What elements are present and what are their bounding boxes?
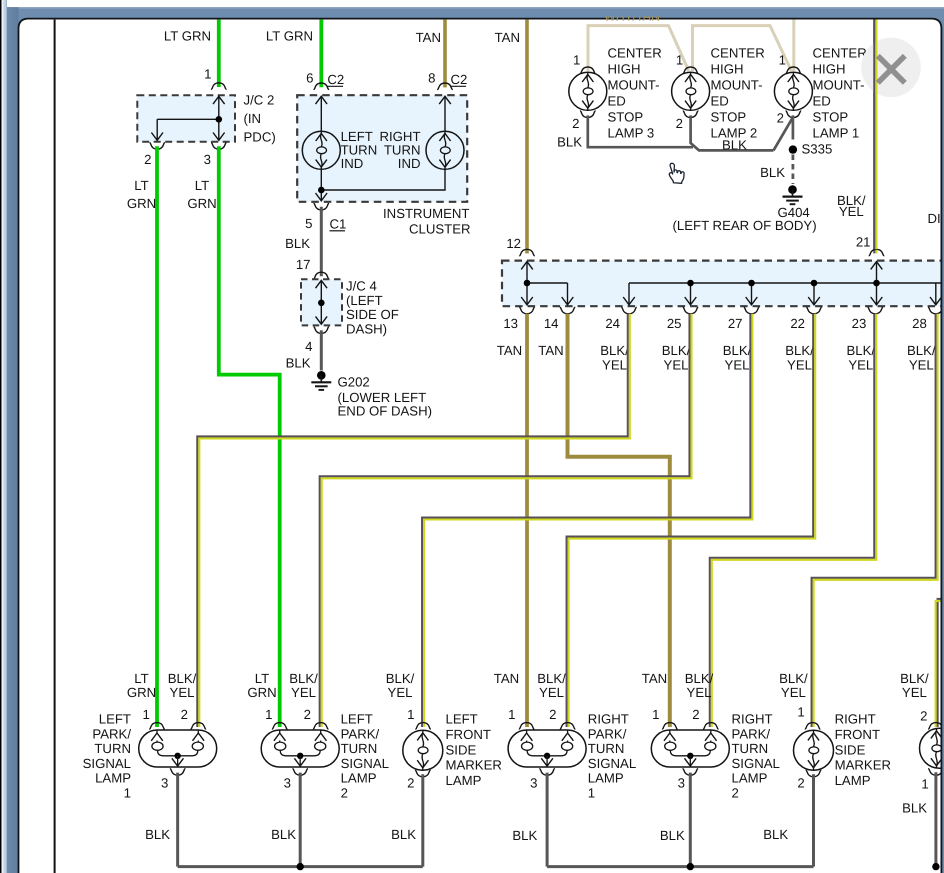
svg-text:FRONT: FRONT <box>446 727 491 742</box>
junction node right rear ground <box>932 863 939 870</box>
svg-text:LAMP: LAMP <box>341 771 377 786</box>
bus internal junction node pin12 <box>524 280 531 287</box>
svg-text:3: 3 <box>530 776 537 791</box>
bus internal junction nodes <box>687 280 694 287</box>
wire BLK/YEL bus pin 24 to left park/turn signal lamp 1 pin 2 <box>197 314 628 727</box>
svg-text:BLK: BLK <box>391 827 416 842</box>
svg-text:RIGHT: RIGHT <box>732 712 773 727</box>
svg-text:2: 2 <box>732 785 739 800</box>
svg-text:RIGHT: RIGHT <box>588 712 629 727</box>
svg-text:YEL: YEL <box>909 358 934 373</box>
bus internal wiring pin 12 to 13/14 <box>527 262 568 305</box>
svg-text:LEFT: LEFT <box>446 712 478 727</box>
svg-text:1: 1 <box>797 705 804 720</box>
svg-text:23: 23 <box>852 316 867 331</box>
svg-text:MARKER: MARKER <box>835 758 891 773</box>
pin connector arcs right side marker <box>805 723 821 729</box>
svg-text:BLK/: BLK/ <box>662 343 691 358</box>
svg-text:CENTER: CENTER <box>813 46 867 61</box>
svg-text:LEFT: LEFT <box>341 712 373 727</box>
svg-text:BLK: BLK <box>760 165 785 180</box>
svg-text:BLK/: BLK/ <box>907 343 936 358</box>
svg-text:SIDE: SIDE <box>446 742 477 757</box>
svg-text:LAMP: LAMP <box>835 773 871 788</box>
svg-text:G202: G202 <box>338 375 370 390</box>
svg-text:HIGH: HIGH <box>813 62 846 77</box>
pin 3 connector arc (J/C 2) <box>211 143 227 149</box>
lamp CENTER HIGH MOUNTED STOP LAMP 3 <box>569 72 607 110</box>
svg-text:1: 1 <box>652 707 659 722</box>
svg-text:2: 2 <box>920 709 927 724</box>
svg-text:5: 5 <box>305 216 312 231</box>
svg-text:TAN: TAN <box>416 30 441 45</box>
svg-text:GRN: GRN <box>127 685 156 700</box>
svg-text:BLK/: BLK/ <box>600 343 629 358</box>
svg-text:LT: LT <box>195 178 209 193</box>
svg-text:LEFT: LEFT <box>99 712 131 727</box>
svg-text:PDC): PDC) <box>244 130 276 145</box>
svg-text:SIGNAL: SIGNAL <box>83 756 131 771</box>
svg-text:3: 3 <box>204 152 211 167</box>
lamp CENTER HIGH MOUNTED STOP LAMP 2 <box>672 72 710 110</box>
svg-text:MOUNT-: MOUNT- <box>608 78 660 93</box>
svg-text:TAN: TAN <box>497 343 522 358</box>
svg-text:BLK: BLK <box>763 827 788 842</box>
svg-text:C1: C1 <box>330 217 347 232</box>
svg-text:CENTER: CENTER <box>608 46 662 61</box>
wire over close button <box>873 19 875 249</box>
clipped label WHT/TAN at top edge <box>604 9 660 23</box>
wire BLK ground bus right <box>547 865 813 868</box>
svg-text:YEL: YEL <box>539 685 564 700</box>
wire BLK J/C 4 pin 4 to ground G202 <box>320 330 323 370</box>
wire LT GRN from J/C 2 pin 3 to left park/turn signal lamp 2 pin 1 <box>219 146 280 727</box>
svg-text:SIDE OF: SIDE OF <box>346 307 399 322</box>
svg-text:25: 25 <box>667 316 682 331</box>
svg-text:TURN: TURN <box>732 741 769 756</box>
svg-text:RIGHT: RIGHT <box>835 712 876 727</box>
svg-text:FRONT: FRONT <box>835 727 880 742</box>
svg-text:HIGH: HIGH <box>608 62 641 77</box>
svg-text:YEL: YEL <box>388 685 413 700</box>
lamp RIGHT FRONT SIDE MARKER LAMP <box>794 730 834 770</box>
pin 1 connector arc (stop lamp 3) <box>580 67 596 73</box>
lamp LEFT FRONT SIDE MARKER LAMP <box>403 730 443 770</box>
pin connector arcs left side marker <box>415 723 431 729</box>
lamp RIGHT PARK/TURN SIGNAL LAMP 2 <box>651 730 729 767</box>
svg-text:1: 1 <box>407 707 414 722</box>
pin connector arcs right lamp 2 <box>662 723 678 729</box>
svg-text:BLK/: BLK/ <box>685 671 714 686</box>
svg-text:LAMP 3: LAMP 3 <box>608 126 655 141</box>
svg-text:TURN: TURN <box>94 741 131 756</box>
svg-text:BLK/: BLK/ <box>779 671 808 686</box>
bus bottom connector arcs <box>519 307 535 313</box>
svg-text:C2: C2 <box>327 72 344 87</box>
svg-text:LAMP 1: LAMP 1 <box>813 126 860 141</box>
pin 2 connector arc (stop lamp 1) <box>786 111 802 117</box>
svg-text:YEL: YEL <box>848 358 873 373</box>
svg-text:BLK/: BLK/ <box>386 671 415 686</box>
close button circle <box>861 38 921 98</box>
svg-text:2: 2 <box>692 707 699 722</box>
pin connector arcs left lamp 2 <box>272 723 288 729</box>
svg-text:GRN: GRN <box>187 196 216 211</box>
wire WHT/TAN chain stop lamp 2 to stop lamp 1 <box>693 26 792 71</box>
svg-text:BLK/: BLK/ <box>847 343 876 358</box>
junction node left ground bus <box>297 863 304 870</box>
svg-text:BLK/: BLK/ <box>785 343 814 358</box>
svg-text:MARKER: MARKER <box>446 758 502 773</box>
svg-text:17: 17 <box>296 257 311 272</box>
svg-text:TAN: TAN <box>538 343 563 358</box>
J/C 4 internal link <box>320 280 322 324</box>
wire TAN from top to bus pin 12 <box>525 18 529 253</box>
svg-text:8: 8 <box>428 71 435 86</box>
svg-text:TAN: TAN <box>642 671 667 686</box>
svg-text:TAN: TAN <box>495 30 520 45</box>
svg-text:ED: ED <box>813 94 831 109</box>
pin 1 connector arc (stop lamp 1) <box>786 67 802 73</box>
svg-text:PARK/: PARK/ <box>341 726 380 741</box>
ground G404 <box>783 185 803 204</box>
svg-text:YEL: YEL <box>787 358 812 373</box>
wire LT GRN from J/C 2 pin 2 to left park/turn signal lamp 1 pin 1 <box>155 146 159 727</box>
J/C 4 internal junction node <box>318 300 325 307</box>
J/C 2 internal junction node <box>216 116 223 123</box>
svg-text:(LEFT REAR OF BODY): (LEFT REAR OF BODY) <box>673 218 817 233</box>
instrument cluster box <box>297 95 467 202</box>
svg-text:YEL: YEL <box>687 685 712 700</box>
svg-text:BLK/: BLK/ <box>289 671 318 686</box>
junction connector J/C 2 (IN PDC) box <box>137 95 235 142</box>
svg-text:ED: ED <box>711 94 729 109</box>
wire BLK/YEL bus pin 27 to left front side marker lamp pin 1 <box>422 314 750 727</box>
svg-text:3: 3 <box>161 776 168 791</box>
svg-text:BLK: BLK <box>512 828 537 843</box>
svg-text:TAN: TAN <box>494 671 519 686</box>
svg-text:IND: IND <box>398 156 421 171</box>
svg-text:END OF DASH): END OF DASH) <box>338 404 433 419</box>
pin 1 connector arc (stop lamp 2) <box>683 67 699 73</box>
svg-text:BLK: BLK <box>660 828 685 843</box>
pin 1 connector arc (J/C 2) <box>211 83 227 89</box>
wire BLK right side marker pin 2 <box>812 774 815 866</box>
svg-text:BLK: BLK <box>271 827 296 842</box>
svg-text:2: 2 <box>572 116 579 131</box>
svg-text:PARK/: PARK/ <box>92 726 131 741</box>
svg-text:3: 3 <box>678 776 685 791</box>
svg-text:1: 1 <box>508 707 515 722</box>
wire BLK/YEL bus pin 22 to right park/turn signal lamp 1 pin 2 <box>567 314 814 727</box>
svg-text:SIDE: SIDE <box>835 742 866 757</box>
svg-text:2: 2 <box>341 785 348 800</box>
pin 12 connector arc (bus) <box>519 249 535 255</box>
svg-text:PARK/: PARK/ <box>588 726 627 741</box>
pin 17 connector arc (J/C 4) <box>314 272 330 278</box>
pin 2 connector arc (stop lamp 3) <box>580 111 596 117</box>
svg-text:YEL: YEL <box>725 358 750 373</box>
svg-text:TURN: TURN <box>588 741 625 756</box>
diagram left border line <box>54 19 56 873</box>
pin 5 connector arc (cluster) <box>314 204 330 210</box>
svg-text:LAMP: LAMP <box>732 771 768 786</box>
svg-text:14: 14 <box>544 316 559 331</box>
svg-text:S335: S335 <box>802 142 833 157</box>
svg-text:TURN: TURN <box>341 741 378 756</box>
svg-text:INSTRUMENT: INSTRUMENT <box>383 206 469 221</box>
svg-text:CLUSTER: CLUSTER <box>409 222 471 237</box>
svg-text:MOUNT-: MOUNT- <box>813 78 865 93</box>
clipped WHT/TAN label fragment over bar <box>604 9 660 23</box>
svg-text:22: 22 <box>790 316 805 331</box>
svg-text:LAMP: LAMP <box>95 771 131 786</box>
svg-text:1: 1 <box>573 53 580 68</box>
wire TAN bus pin 14 to right park/turn signal lamp 2 pin 1 <box>568 314 670 727</box>
svg-text:YEL: YEL <box>170 685 195 700</box>
svg-text:STOP: STOP <box>813 110 849 125</box>
junction connector J/C 4 box <box>301 279 342 325</box>
wire BLK right rear marker pin 1 <box>934 772 937 866</box>
svg-text:(LEFT: (LEFT <box>346 293 383 308</box>
wire TAN to instrument cluster pin 8 <box>443 18 447 87</box>
svg-text:1: 1 <box>779 53 786 68</box>
svg-text:GRN: GRN <box>127 196 156 211</box>
wire BLK left lamp 1 pin 3 <box>176 773 179 867</box>
svg-text:4: 4 <box>305 339 312 354</box>
svg-text:12: 12 <box>506 236 521 251</box>
svg-text:2: 2 <box>797 776 804 791</box>
pin connector arcs right rear marker <box>928 723 944 729</box>
svg-text:YEL: YEL <box>602 358 627 373</box>
wire BLK/YEL from off-page to right rear side marker lamp pin 2 <box>938 599 944 727</box>
wire WHT/TAN chain stop lamp 3 to stop lamp 2 <box>588 26 689 71</box>
wire LT GRN to instrument cluster pin 6 <box>319 18 323 87</box>
svg-text:2: 2 <box>549 707 556 722</box>
svg-text:3: 3 <box>284 776 291 791</box>
svg-text:STOP: STOP <box>608 110 644 125</box>
svg-text:BLK: BLK <box>902 801 927 816</box>
svg-text:2: 2 <box>777 111 784 126</box>
svg-text:2: 2 <box>181 707 188 722</box>
svg-text:GRN: GRN <box>247 685 276 700</box>
svg-text:DASH): DASH) <box>346 322 387 337</box>
svg-text:13: 13 <box>503 316 518 331</box>
J/C 2 internal link pin 1 to pins 2 and 3 <box>157 96 219 140</box>
wire BLK stop lamp 1 pin 2 diagonal to splice <box>774 118 793 151</box>
svg-text:J/C 2: J/C 2 <box>244 93 275 108</box>
lamp CENTER HIGH MOUNTED STOP LAMP 1 <box>774 72 812 110</box>
svg-text:HIGH: HIGH <box>711 62 744 77</box>
svg-text:YEL: YEL <box>839 204 864 219</box>
svg-text:CENTER: CENTER <box>711 46 765 61</box>
svg-text:1: 1 <box>921 777 928 792</box>
svg-text:LT GRN: LT GRN <box>266 29 313 44</box>
svg-text:28: 28 <box>912 316 927 331</box>
wire BLK right lamp 1 pin 3 <box>546 773 549 867</box>
svg-text:1: 1 <box>142 707 149 722</box>
svg-text:BLK: BLK <box>557 135 582 150</box>
svg-text:YEL: YEL <box>902 685 927 700</box>
svg-text:SIGNAL: SIGNAL <box>588 756 636 771</box>
svg-text:27: 27 <box>728 316 743 331</box>
lamp right rear side marker (clipped) <box>920 728 944 768</box>
lamp RIGHT TURN IND <box>426 131 464 169</box>
wire BLK left side marker pin 2 <box>421 774 424 866</box>
svg-text:1: 1 <box>588 785 595 800</box>
svg-text:2: 2 <box>676 116 683 131</box>
svg-text:24: 24 <box>605 316 620 331</box>
splice S335 <box>789 145 797 153</box>
pin connector arcs left lamp 1 <box>149 723 165 729</box>
svg-text:6: 6 <box>306 71 313 86</box>
wire WHT/TAN feed from top to stop lamp 1 <box>792 18 795 71</box>
svg-text:LAMP: LAMP <box>446 773 482 788</box>
svg-text:BLK: BLK <box>145 827 170 842</box>
svg-text:2: 2 <box>144 152 151 167</box>
cluster internal common return wiring <box>321 169 445 201</box>
wire BLK ground bus left <box>178 865 423 868</box>
wire BLK cluster pin 5 to J/C 4 pin 17 <box>320 207 323 276</box>
svg-text:C2: C2 <box>451 72 468 87</box>
svg-text:LT: LT <box>255 671 269 686</box>
bus internal wiring pin 21 to 24/25/27/22/23/28 <box>629 262 944 305</box>
wire BLK right lamp 2 pin 3 <box>689 773 692 867</box>
cluster internal junction node <box>318 187 325 194</box>
svg-text:BLK: BLK <box>722 138 747 153</box>
wire BLK/YEL bus pin 28 to right front side marker lamp pin 1 <box>812 314 936 727</box>
svg-text:BLK/: BLK/ <box>168 671 197 686</box>
svg-text:BLK/: BLK/ <box>900 671 929 686</box>
svg-text:SIGNAL: SIGNAL <box>341 756 389 771</box>
left scrollbar strip <box>0 0 2 873</box>
lamp LEFT TURN IND <box>302 131 340 169</box>
wire BLK stop lamp 1 pin 2 stub to S335 <box>792 115 795 139</box>
svg-text:IND: IND <box>341 156 364 171</box>
svg-text:SIGNAL: SIGNAL <box>732 756 780 771</box>
cursor hand icon <box>669 163 685 183</box>
svg-text:LT: LT <box>134 178 148 193</box>
wire BLK/YEL bus pin 23 to right park/turn signal lamp 2 pin 2 <box>710 314 875 727</box>
pin 2 connector arc (stop lamp 2) <box>683 111 699 117</box>
wire BLK/YEL from top to bus pin 21 <box>873 18 875 253</box>
pin 6 connector arc (cluster) <box>314 83 330 89</box>
svg-text:LT GRN: LT GRN <box>164 29 211 44</box>
pin 2 connector arc (J/C 2) <box>149 143 165 149</box>
svg-text:ED: ED <box>608 94 626 109</box>
lamp RIGHT PARK/TURN SIGNAL LAMP 1 <box>508 730 586 767</box>
ground G202 <box>311 371 331 390</box>
svg-text:BLK/: BLK/ <box>537 671 566 686</box>
right turn indicator feed line <box>444 96 446 131</box>
svg-text:BLK/: BLK/ <box>723 343 752 358</box>
pin 21 connector arc (bus) <box>869 249 885 255</box>
svg-text:LT: LT <box>134 671 148 686</box>
svg-text:MOUNT-: MOUNT- <box>711 78 763 93</box>
svg-text:LAMP: LAMP <box>588 771 624 786</box>
svg-text:1: 1 <box>676 53 683 68</box>
svg-text:PARK/: PARK/ <box>732 726 771 741</box>
left turn indicator feed line <box>320 96 322 131</box>
svg-text:(IN: (IN <box>244 111 262 126</box>
pin connector arcs right lamp 1 <box>519 723 535 729</box>
svg-text:21: 21 <box>856 235 871 250</box>
splice bus dashed box <box>502 261 944 307</box>
svg-text:YEL: YEL <box>664 358 689 373</box>
lamp LEFT PARK/TURN SIGNAL LAMP 2 <box>261 730 339 767</box>
wire BLK/YEL bus pin 25 to left park/turn signal lamp 2 pin 2 <box>320 314 690 727</box>
svg-text:2: 2 <box>304 707 311 722</box>
svg-text:BLK: BLK <box>285 236 310 251</box>
junction node right ground bus <box>687 863 694 870</box>
svg-text:YEL: YEL <box>291 685 316 700</box>
pin 4 connector arc (J/C 4) <box>314 327 330 333</box>
dashed wire BLK S335 to ground G404 <box>792 155 795 185</box>
close button X glyph <box>878 56 905 83</box>
wire BLK left lamp 2 pin 3 <box>299 773 302 867</box>
lamp LEFT PARK/TURN SIGNAL LAMP 1 <box>139 730 217 767</box>
wire BLK stop lamp 2 pin 2 with jog <box>691 115 774 150</box>
wire LT GRN to J/C 2 pin 1 <box>217 18 221 87</box>
wire TAN bus pin 13 to right park/turn signal lamp 1 pin 1 <box>525 314 529 727</box>
svg-text:1: 1 <box>124 785 131 800</box>
svg-text:2: 2 <box>407 776 414 791</box>
wire BLK stop lamp 3 pin 2 bus <box>588 115 693 147</box>
pin 8 connector arc (cluster) <box>437 83 453 89</box>
svg-text:YEL: YEL <box>781 685 806 700</box>
svg-text:1: 1 <box>265 707 272 722</box>
svg-text:STOP: STOP <box>711 110 747 125</box>
svg-text:BLK: BLK <box>286 356 311 371</box>
svg-text:J/C 4: J/C 4 <box>346 279 377 294</box>
svg-text:1: 1 <box>204 67 211 82</box>
